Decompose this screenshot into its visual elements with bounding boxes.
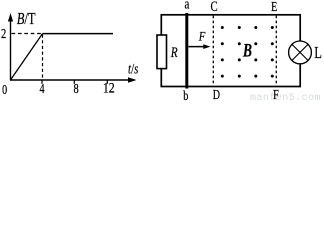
svg-text:a: a — [185, 0, 190, 12]
conducting rod ab — [185, 13, 188, 89]
x-axis tick t=12 — [106, 80, 108, 84]
svg-text:b: b — [183, 87, 188, 101]
circuit outer loop wire — [161, 15, 300, 87]
graph x-axis t/s — [10, 77, 137, 82]
graph y-axis B/T — [8, 13, 13, 81]
dashed field boundary CD — [212, 16, 214, 87]
resistor R — [157, 35, 167, 69]
x-axis tick t=8 — [73, 80, 75, 84]
x-axis tick t=4 — [41, 80, 43, 84]
svg-text:12: 12 — [103, 80, 115, 96]
svg-text:B: B — [242, 39, 252, 61]
svg-text:R: R — [170, 43, 178, 60]
svg-text:B/T: B/T — [17, 11, 36, 29]
svg-text:F: F — [198, 28, 206, 43]
svg-text:2: 2 — [1, 25, 6, 41]
svg-text:t/s: t/s — [128, 61, 138, 77]
force arrow F — [189, 44, 211, 49]
svg-text:D: D — [213, 87, 221, 101]
B-t curve plateau segment — [43, 33, 114, 35]
magnetic field dot grid — [221, 26, 274, 78]
dashed guide at t=4 — [42, 35, 44, 80]
dashed guide at B=2 — [12, 33, 43, 35]
svg-text:C: C — [210, 0, 217, 14]
dashed field boundary EF — [275, 16, 277, 87]
svg-text:E: E — [271, 0, 277, 14]
svg-text:F: F — [273, 86, 279, 101]
svg-text:0: 0 — [2, 81, 7, 97]
B-t curve ramp segment — [11, 34, 43, 80]
svg-text:manfen5.com: manfen5.com — [250, 92, 321, 101]
lamp L — [289, 41, 312, 64]
svg-text:L: L — [314, 44, 322, 62]
